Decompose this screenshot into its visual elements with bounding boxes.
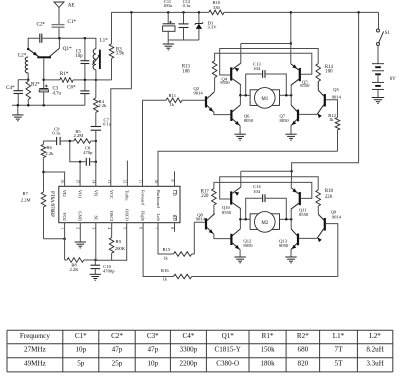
svg-text:12: 12 [123,180,127,184]
svg-text:VI1: VI1 [93,190,98,197]
svg-text:C4*: C4* [182,332,194,340]
svg-text:R2*: R2* [31,81,40,87]
svg-text:C2*: C2* [111,332,123,340]
node [95,140,98,143]
svg-text:R16: R16 [161,268,169,273]
svg-text:LD: LD [172,190,177,196]
svg-text:25p: 25p [112,360,123,368]
resistor R11 [143,93,206,186]
wire line B2 [220,177,319,199]
svg-text:2.2M: 2.2M [73,133,83,138]
svg-text:C1*: C1* [75,332,87,340]
svg-text:8050: 8050 [280,118,290,123]
svg-text:220: 220 [325,195,333,200]
svg-text:6: 6 [138,227,142,229]
svg-text:47p: 47p [147,346,158,354]
svg-text:220: 220 [201,194,209,199]
wire [239,209,241,229]
wire [42,38,96,49]
diode D1 zener [195,12,218,40]
inductor L2 [18,53,28,80]
svg-text:1k: 1k [163,277,168,282]
capacitor C5 [76,38,90,80]
node [17,104,20,107]
wire Q7 base [299,113,317,115]
capacitor C1 [52,19,77,38]
wire M2 supply [292,12,359,171]
resistor R13 [182,61,217,91]
svg-text:R15: R15 [163,247,171,252]
resistor R8 [65,258,96,272]
capacitor C8 [83,146,96,166]
svg-text:VO1: VO1 [78,190,83,199]
node [239,94,242,97]
transistor Q7 [280,105,299,126]
transistor Q9 [317,210,342,243]
resistor R14 [316,64,334,91]
transistor Q1 [28,46,72,57]
transistor Q5 [291,64,310,88]
svg-text:AE: AE [68,3,75,9]
svg-text:OSCO: OSCO [125,209,130,221]
svg-text:R2*: R2* [297,332,309,340]
capacitor C14 [246,184,287,219]
wire [317,82,319,91]
svg-text:L1*: L1* [333,332,345,340]
svg-text:680: 680 [298,346,309,354]
ground [234,250,245,263]
capacitor C4 [6,80,23,106]
node [290,170,293,173]
svg-text:C1815-Y: C1815-Y [214,346,240,354]
resistor R10 [209,0,224,15]
node [42,171,45,174]
ground [285,250,296,263]
svg-text:8550: 8550 [220,80,230,85]
capacitor C7 [91,117,112,186]
svg-text:200K: 200K [115,246,126,251]
svg-text:M1: M1 [261,97,268,102]
motor M2 [250,212,279,233]
svg-text:SC: SC [93,216,98,221]
svg-text:100u: 100u [163,3,173,8]
svg-text:Q1*: Q1* [63,46,72,52]
node [94,259,97,262]
node Q1 emitter [27,48,30,51]
svg-text:RD: RD [172,215,177,221]
node [290,218,293,221]
wire [95,70,97,80]
svg-text:R1*: R1* [60,71,69,77]
wire pin8 stub [174,223,176,232]
battery 6V [372,64,396,98]
svg-text:9: 9 [170,180,174,182]
resistor R4 [94,80,108,127]
svg-text:4: 4 [107,227,111,229]
node [69,140,72,143]
svg-text:Left: Left [156,214,161,222]
svg-text:R1*: R1* [262,332,274,340]
svg-text:2.2M: 2.2M [21,198,31,203]
wire ground rail [12,104,85,106]
svg-text:27MHz: 27MHz [24,346,46,354]
transistor Q4 [220,63,240,85]
wire Q13 base [299,237,317,239]
svg-text:104: 104 [253,66,261,71]
svg-text:3.9k: 3.9k [116,52,125,57]
svg-text:0.1u: 0.1u [52,131,61,136]
svg-text:L2*: L2* [18,53,27,59]
wire [290,209,292,229]
svg-text:C380-O: C380-O [216,360,239,368]
ground battery [372,98,384,104]
svg-text:2.2k: 2.2k [98,103,107,108]
wire [280,94,292,96]
svg-text:5T: 5T [335,360,344,368]
resistor R2 [26,80,40,106]
wire Q9 base [326,224,338,277]
ground [285,126,296,141]
resistor R12 [328,113,340,151]
node collector [58,37,61,40]
svg-text:8050: 8050 [244,118,254,123]
svg-text:C1*: C1* [68,19,77,25]
ground pin2 [75,223,86,248]
svg-text:8050: 8050 [279,243,289,248]
svg-text:OSCI: OSCI [109,211,114,222]
svg-text:R7: R7 [23,191,29,196]
svg-text:GND: GND [78,211,83,221]
svg-text:14: 14 [91,180,95,184]
resistor R1 [44,71,96,82]
wire [58,38,60,48]
svg-text:10p: 10p [147,360,158,368]
svg-text:R18: R18 [325,189,334,194]
node [244,218,247,221]
svg-text:R6: R6 [46,145,52,150]
svg-text:820: 820 [298,360,309,368]
capacitor C3 [39,85,61,106]
node L1 bottom [95,79,98,82]
svg-text:C3*: C3* [147,332,159,340]
svg-text:C6*: C6* [67,84,76,90]
wire pin9 stub [174,171,176,186]
svg-text:9014: 9014 [332,94,342,99]
wire Q8 emitter to Q12 base [214,234,231,238]
svg-text:2: 2 [76,227,80,229]
node L2 bottom [27,78,30,81]
svg-text:1: 1 [60,227,64,229]
node [95,161,98,164]
resistor R16 [143,223,338,282]
node [84,79,87,82]
resistor R18 [316,189,334,214]
svg-text:470p: 470p [83,150,93,155]
svg-text:4.7u: 4.7u [53,91,62,96]
wire VCC to IC [111,12,132,186]
wire [96,79,112,81]
wire pin15 [79,162,81,187]
node base [42,79,45,82]
svg-text:150k: 150k [260,346,275,354]
svg-text:0.1u: 0.1u [103,122,112,127]
wire [240,218,250,220]
wire pin5 osc [96,223,127,261]
svg-text:1k: 1k [163,256,168,261]
svg-text:330: 330 [213,5,221,10]
svg-text:8.2uH: 8.2uH [366,346,384,354]
svg-text:1k: 1k [170,102,175,107]
wire supply rail [112,12,379,29]
wire VO1 loop [70,141,86,162]
svg-text:Q3: Q3 [333,87,339,92]
svg-text:L1*: L1* [100,37,109,43]
svg-text:104: 104 [253,189,261,194]
svg-text:M2: M2 [261,221,268,226]
node [79,161,82,164]
svg-text:Forward: Forward [140,190,145,206]
antenna AE [54,2,75,24]
svg-text:VI2: VI2 [62,190,67,197]
wire [290,171,292,188]
transistor Q11 [291,188,309,217]
svg-text:8050: 8050 [243,243,253,248]
transistor Q10 [222,187,241,215]
wire line B [220,49,319,76]
table [7,330,393,372]
svg-text:8550: 8550 [222,210,232,215]
node [27,104,30,107]
svg-text:C2*: C2* [37,22,46,28]
svg-text:1k: 1k [329,117,334,122]
switch S1 [377,29,391,46]
svg-text:Backward: Backward [156,190,161,209]
node [167,11,170,14]
svg-text:0.1u: 0.1u [183,3,191,8]
node [290,94,293,97]
svg-text:47p: 47p [112,346,123,354]
motor M1 [250,88,279,109]
svg-text:VO2: VO2 [62,212,67,221]
resistor R6 [41,141,54,192]
svg-text:2.2K: 2.2K [69,267,79,272]
resistor R5 [70,129,96,144]
capacitor C6 [67,80,90,105]
wire backward line [158,151,338,186]
node [285,218,288,221]
node [130,11,133,14]
transistor Q3 [317,87,342,118]
capacitor C10 [91,260,116,274]
transistor Q2 [194,86,215,112]
wire [240,94,250,96]
capacitor C2 [37,22,46,43]
svg-text:Q1*: Q1* [222,332,235,340]
svg-text:3.3uH: 3.3uH [366,360,384,368]
svg-text:8550: 8550 [300,83,310,88]
transistor Q13 [279,229,298,250]
svg-text:2.2k: 2.2k [45,151,54,156]
wire [377,46,379,64]
wire pin12 stub [126,161,128,187]
ground [163,44,174,50]
svg-text:8550: 8550 [299,212,309,217]
resistor R15 [158,222,205,260]
svg-text:3.3V: 3.3V [208,25,218,30]
wire [290,12,292,43]
svg-text:C4*: C4* [6,85,15,91]
node [239,218,242,221]
wire [290,85,292,105]
IC U1 PT8A/978BP box [49,186,180,222]
wire [239,85,241,105]
transistor Q6 [231,105,253,126]
svg-text:10p: 10p [76,54,84,59]
wire Q2 emitter to Q6 base [214,112,231,114]
svg-text:10: 10 [154,180,158,184]
svg-text:13: 13 [107,180,111,184]
wire [18,79,28,81]
svg-text:S1: S1 [385,31,391,36]
wire [290,44,292,64]
capacitor C11 [163,0,175,44]
svg-text:5p: 5p [77,360,85,368]
svg-text:Right: Right [140,211,145,222]
capacitor C13 [246,61,287,95]
wire Q3 base [326,100,338,118]
wire [240,171,242,187]
node [42,104,45,107]
svg-text:15: 15 [76,180,80,184]
ground [90,274,101,280]
wire line A2 [241,170,292,172]
svg-text:10p: 10p [75,346,86,354]
wire [44,238,65,240]
transistor Q12 [231,229,253,250]
wire Q1 base [43,58,45,88]
svg-text:R9: R9 [116,239,122,244]
svg-text:4700p: 4700p [103,269,115,274]
svg-text:2200p: 2200p [180,360,198,368]
wire line C [215,53,312,74]
node [244,94,247,97]
wire pin1 [64,223,66,260]
svg-text:16: 16 [60,180,64,184]
svg-text:180k: 180k [260,360,275,368]
svg-text:3: 3 [91,227,95,229]
svg-text:9014: 9014 [332,214,342,219]
node [63,237,66,240]
svg-text:VCC: VCC [109,190,114,199]
resistor R17 [201,189,216,216]
capacitor C12 [179,0,192,40]
node [182,11,185,14]
svg-text:5: 5 [123,227,127,229]
svg-text:49MHz: 49MHz [24,360,46,368]
wire ground bus [168,39,199,41]
svg-text:8: 8 [170,227,174,229]
wire line A [241,43,291,45]
svg-text:9014: 9014 [196,217,206,222]
resistor R7 [21,191,46,239]
node [198,11,201,14]
svg-text:6V: 6V [390,77,396,82]
IC pin labels [60,180,177,230]
svg-text:100: 100 [182,69,190,74]
node [357,11,360,14]
inductor L1 [92,37,108,69]
wire pin16 [44,172,65,186]
wire [28,38,39,49]
resistor R3 [109,12,124,80]
node C5 top [84,37,87,40]
svg-text:11: 11 [138,180,142,184]
svg-text:3300p: 3300p [180,346,198,354]
ground [12,105,23,121]
node [290,42,293,45]
ground [234,126,245,140]
transistor Q8 [196,213,215,235]
svg-text:7: 7 [154,227,158,229]
svg-text:R11: R11 [169,93,177,98]
svg-text:100: 100 [325,70,333,75]
svg-text:7T: 7T [335,346,344,354]
wire line C2 [214,182,312,198]
resistor R9 [109,223,125,261]
wire [280,218,292,220]
node [290,11,293,14]
svg-text:Frequency: Frequency [20,332,50,340]
wire pin3 [95,223,97,260]
svg-text:L2*: L2* [369,332,381,340]
svg-text:9014: 9014 [194,90,204,95]
capacitor C9 [43,126,69,145]
svg-text:PT8A/978BP: PT8A/978BP [49,191,54,217]
svg-text:Turbo: Turbo [125,190,130,201]
node [285,94,288,97]
wire [240,44,242,64]
